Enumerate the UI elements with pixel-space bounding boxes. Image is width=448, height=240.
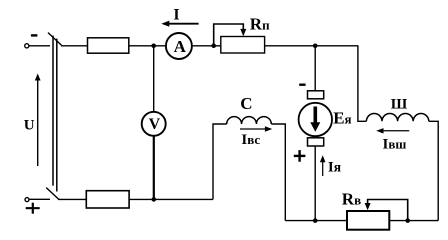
- svg-text:Iвш: Iвш: [383, 137, 407, 153]
- switch S1 handle bar right: [56, 39, 58, 192]
- wire Rp to corner (top rail right): [265, 45, 359, 47]
- svg-text:Iя: Iя: [328, 159, 341, 175]
- label plus (supply): [26, 203, 40, 214]
- inductor Sh (shunt winding): [366, 114, 428, 122]
- resistor R2: [86, 191, 129, 208]
- wire shunt coil to right drop: [429, 121, 438, 220]
- rheostat Rp tap arrow: [214, 24, 247, 46]
- voltmeter PV1: [142, 112, 166, 136]
- svg-text:Iвс: Iвс: [241, 132, 260, 148]
- label minus (armature): [299, 84, 305, 86]
- switch S1 blade top: [48, 33, 62, 46]
- inductor C (series winding) lead-in: [213, 124, 227, 199]
- ammeter PA1: [166, 33, 192, 59]
- svg-text:I: I: [173, 7, 179, 24]
- wire right drop to shunt coil: [358, 46, 367, 122]
- svg-text:Rв: Rв: [342, 190, 361, 209]
- wire bottom-right rail left part: [285, 220, 347, 222]
- svg-text:V: V: [149, 116, 161, 133]
- current arrow Ivs: [240, 126, 272, 131]
- wire terminal T2 to switch: [29, 198, 50, 200]
- svg-text:A: A: [174, 37, 187, 56]
- junction (motor branch top): [313, 44, 318, 49]
- inductor C lead-out and right leg: [271, 124, 285, 221]
- svg-text:C: C: [240, 94, 252, 113]
- rheostat Rp: [221, 37, 265, 54]
- wire motor bottom leg: [314, 146, 316, 221]
- wire terminal T1 to switch: [29, 45, 50, 47]
- motor brush top: [308, 91, 324, 99]
- inductor C (series winding): [227, 117, 272, 124]
- wire ammeter to Rp: [192, 45, 221, 47]
- junction (voltmeter bottom): [152, 197, 157, 202]
- junction (Rp tap): [211, 43, 216, 48]
- wire switch to R1: [61, 45, 88, 47]
- wire switch to R2: [58, 198, 86, 200]
- svg-text:Ш: Ш: [391, 96, 408, 112]
- svg-text:Eя: Eя: [333, 108, 351, 127]
- wire motor top leg: [314, 46, 316, 91]
- current arrow I: [161, 21, 198, 27]
- svg-text:U: U: [24, 117, 35, 133]
- junction (voltmeter tap top): [151, 44, 156, 49]
- terminal T1 (minus): [25, 44, 29, 48]
- voltmeter bottom leg: [153, 136, 155, 200]
- rheostat Rv tap arrow: [365, 200, 408, 221]
- current arrow Iya: [320, 155, 326, 176]
- switch S1 handle bar left: [52, 36, 54, 186]
- svg-text:Rп: Rп: [250, 14, 270, 33]
- terminal T2 (plus): [25, 198, 29, 202]
- junction (motor bottom): [313, 218, 318, 223]
- motor armature Eya: [299, 103, 332, 136]
- motor brush bottom: [308, 138, 324, 146]
- label plus (armature): [294, 150, 306, 162]
- voltmeter top leg: [153, 46, 155, 112]
- wire R2 to C branch: [129, 198, 213, 200]
- rheostat Rv: [347, 211, 389, 230]
- label minus (supply): [31, 34, 38, 36]
- junction (Rv tap): [405, 218, 410, 223]
- current arrow Ivsh: [376, 128, 409, 133]
- switch S1 blade bottom: [46, 188, 59, 200]
- wire R1 to ammeter: [129, 45, 166, 47]
- resistor R1: [88, 38, 129, 53]
- wire bottom-right rail right part: [389, 220, 438, 222]
- U arrow: [35, 74, 41, 167]
